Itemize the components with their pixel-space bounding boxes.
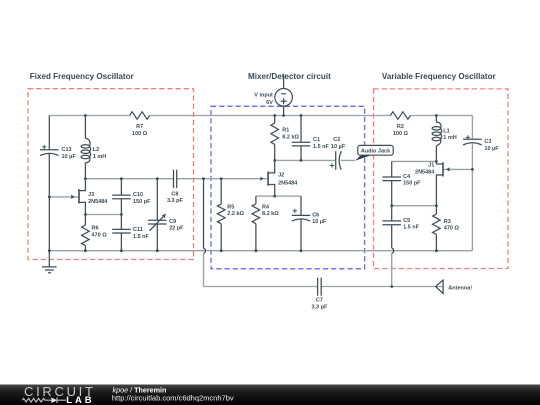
- svg-text:1 mH: 1 mH: [93, 154, 106, 160]
- svg-text:1.5 nF: 1.5 nF: [133, 234, 150, 240]
- svg-text:J1: J1: [428, 163, 434, 169]
- svg-text:10 µF: 10 µF: [331, 144, 346, 150]
- svg-text:10 µF: 10 µF: [62, 154, 77, 160]
- svg-text:100 Ω: 100 Ω: [132, 131, 148, 137]
- svg-text:R7: R7: [136, 124, 143, 130]
- svg-text:22 pF: 22 pF: [169, 226, 184, 232]
- svg-text:C9: C9: [169, 219, 176, 225]
- svg-text:470 Ω: 470 Ω: [444, 226, 460, 232]
- svg-text:C1: C1: [313, 137, 320, 143]
- svg-text:2N5484: 2N5484: [88, 199, 108, 205]
- svg-text:Mixer/Detector circuit: Mixer/Detector circuit: [248, 72, 331, 81]
- svg-text:10 µF: 10 µF: [312, 219, 327, 225]
- svg-text:L1: L1: [443, 128, 449, 134]
- svg-text:8.2 kΩ: 8.2 kΩ: [282, 135, 299, 141]
- svg-text:C13: C13: [62, 147, 72, 153]
- svg-text:R5: R5: [227, 204, 234, 210]
- svg-text:C10: C10: [133, 192, 143, 198]
- svg-text:V input: V input: [254, 93, 273, 99]
- svg-text:C11: C11: [133, 227, 143, 233]
- svg-text:2.2 kΩ: 2.2 kΩ: [227, 211, 244, 217]
- svg-text:C3: C3: [484, 139, 491, 145]
- svg-text:C4: C4: [403, 174, 411, 180]
- svg-text:150 pF: 150 pF: [403, 181, 421, 187]
- svg-text:10 µF: 10 µF: [484, 146, 499, 152]
- svg-text:3.3 pF: 3.3 pF: [311, 304, 328, 310]
- svg-text:3.3 pF: 3.3 pF: [167, 198, 184, 204]
- svg-text:Audio Jack: Audio Jack: [361, 148, 391, 154]
- svg-text:C8: C8: [171, 191, 178, 197]
- svg-text:R2: R2: [397, 124, 404, 130]
- svg-text:C6: C6: [312, 212, 319, 218]
- svg-text:150 pF: 150 pF: [133, 199, 151, 205]
- svg-text:R1: R1: [282, 128, 289, 134]
- svg-text:R4: R4: [262, 204, 270, 210]
- svg-text:C7: C7: [316, 298, 323, 304]
- svg-text:Antenna!: Antenna!: [448, 285, 472, 291]
- svg-text:1 mH: 1 mH: [443, 135, 456, 141]
- svg-text:6V: 6V: [266, 100, 273, 106]
- svg-text:8.2 kΩ: 8.2 kΩ: [262, 211, 279, 217]
- svg-text:Fixed Frequency Oscillator: Fixed Frequency Oscillator: [30, 72, 135, 81]
- svg-text:J2: J2: [278, 173, 284, 179]
- svg-text:J3: J3: [88, 192, 94, 198]
- svg-text:Variable Frequency Oscillator: Variable Frequency Oscillator: [382, 72, 497, 81]
- svg-text:L2: L2: [93, 147, 99, 153]
- svg-text:1.5 nF: 1.5 nF: [403, 225, 420, 231]
- svg-text:470 Ω: 470 Ω: [92, 232, 108, 238]
- svg-text:R6: R6: [92, 226, 99, 232]
- svg-text:C5: C5: [403, 218, 410, 224]
- svg-text:http://circuitlab.com/c6dhq2mc: http://circuitlab.com/c6dhq2mcnh7bv: [112, 394, 234, 403]
- svg-text:C2: C2: [333, 137, 340, 143]
- svg-text:R3: R3: [444, 219, 451, 225]
- svg-text:1.5 nF: 1.5 nF: [313, 144, 330, 150]
- svg-text:2N5484: 2N5484: [415, 169, 435, 175]
- svg-text:100 Ω: 100 Ω: [393, 131, 409, 137]
- svg-text:2N5484: 2N5484: [278, 180, 298, 186]
- svg-text:LAB: LAB: [66, 395, 94, 405]
